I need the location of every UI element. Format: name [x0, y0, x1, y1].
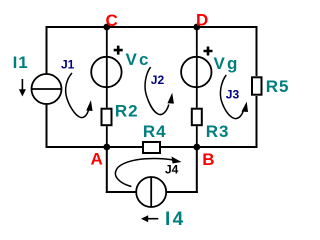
svg-text:R2: R2: [115, 101, 139, 120]
svg-text:R4: R4: [143, 122, 167, 141]
svg-text:I1: I1: [13, 53, 29, 72]
svg-text:Vg: Vg: [214, 54, 240, 73]
mesh arrow J1: [66, 73, 89, 118]
voltage source Vg: [181, 57, 211, 87]
I4 current arrow: [148, 218, 158, 220]
node C: [103, 24, 110, 31]
wire: top C-D rail: [46, 26, 258, 28]
node D: [193, 24, 200, 31]
wire: bottom A-B rail left of R4: [46, 146, 143, 148]
plus sign Vg: [204, 47, 213, 56]
wire: bottom loop right horizontal: [166, 191, 198, 193]
svg-text:J3: J3: [226, 87, 240, 101]
mesh arrow J4: [115, 159, 173, 187]
svg-text:J2: J2: [151, 73, 165, 87]
wire: D branch through Vg down to R3: [196, 27, 198, 108]
mesh arrow J3: [220, 75, 243, 119]
svg-text:Vc: Vc: [126, 50, 151, 69]
svg-text:B: B: [202, 150, 214, 169]
wire: B down to bottom loop: [196, 147, 198, 193]
svg-text:J4: J4: [165, 163, 179, 177]
node A: [103, 144, 110, 151]
wire: right branch lower: [256, 96, 258, 148]
wire: left branch upper: [46, 26, 48, 74]
current source I1: [32, 74, 62, 104]
svg-text:J1: J1: [61, 58, 75, 72]
node B: [193, 144, 200, 151]
current source I4: [136, 177, 166, 207]
wire: A down to bottom loop: [106, 147, 108, 193]
wire: bottom A-B rail right of R4: [161, 146, 258, 148]
wire: left branch lower: [46, 104, 48, 148]
plus sign Vc: [114, 46, 123, 55]
wire: bottom loop left horizontal: [106, 191, 136, 193]
resistor R3: [192, 109, 202, 126]
svg-text:R5: R5: [266, 77, 290, 96]
wire: R3 to B: [196, 126, 198, 147]
resistor R5: [252, 77, 262, 94]
resistor R2: [102, 109, 112, 126]
svg-text:R3: R3: [206, 122, 230, 141]
resistor R4: [143, 142, 160, 153]
svg-text:C: C: [106, 11, 118, 30]
svg-text:D: D: [196, 11, 208, 30]
mesh arrow J2: [145, 67, 169, 115]
svg-text:A: A: [91, 150, 103, 169]
I1 current arrow: [21, 79, 23, 90]
voltage source Vc: [91, 57, 121, 87]
svg-text:I4: I4: [165, 209, 186, 230]
wire: R2 to A: [106, 126, 108, 147]
wire: right branch upper: [256, 26, 258, 76]
wire: C branch through Vc down to R2: [106, 27, 108, 108]
